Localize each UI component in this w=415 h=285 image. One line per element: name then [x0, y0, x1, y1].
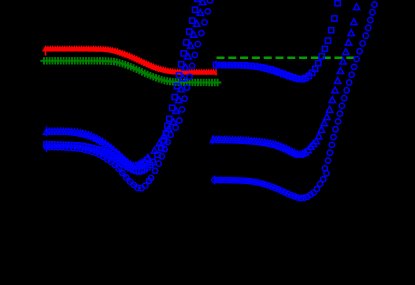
blue open-square series (left panel) [44, 0, 200, 174]
blue open-circle series (left panel) [44, 0, 213, 191]
red triangle-marker series with connecting line (upper left) [42, 45, 217, 75]
green dashed horizontal reference line [217, 57, 355, 60]
blue open-circle series (right panel) [212, 0, 378, 201]
blue open-triangle series (right panel) [210, 4, 359, 157]
blue open-square series (right panel) [213, 1, 340, 82]
blue open-triangle series (left panel) [43, 0, 206, 169]
green plus-marker series with connecting line (below red) [40, 57, 221, 86]
